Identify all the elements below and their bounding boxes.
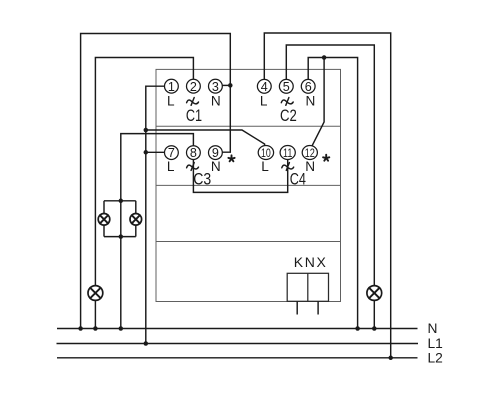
- wire C1 output: terminal 2 via lamp E1 to N bus: [95, 58, 193, 329]
- KNX connector block: [287, 273, 328, 301]
- wire lamp pair top bar: [104, 200, 136, 202]
- junction outer loop on N bus: [78, 326, 83, 331]
- bus line L2: [57, 357, 418, 359]
- switched output symbol terminal 2: [187, 98, 199, 106]
- junction L1 feed / terminal 1+10: [144, 128, 149, 133]
- device box outline: [156, 69, 341, 301]
- terminal 4: [257, 79, 271, 93]
- wire branch to terminal 12: [312, 58, 324, 146]
- svg-text:12: 12: [305, 146, 315, 160]
- junction lamp pair wire on N bus: [119, 326, 124, 331]
- switched output symbol terminal 5: [281, 98, 293, 106]
- svg-text:N: N: [428, 321, 438, 336]
- junction L1 feed / terminal 7: [144, 150, 149, 155]
- svg-text:1: 1: [168, 80, 175, 94]
- device box division line 2: [156, 184, 341, 186]
- svg-text:L1: L1: [428, 336, 443, 351]
- svg-text:N: N: [211, 93, 221, 108]
- wire N-loop left: N bus to terminals 3 and 9: [81, 34, 231, 329]
- wire stub terminal 3 to N-loop: [222, 84, 230, 86]
- wire lamp pair right branch: [135, 201, 137, 237]
- wire C3 output upper: terminal 8 to lamp pair to N bus: [121, 134, 194, 329]
- wire parallel link terminal 8 to terminal 11: [193, 159, 287, 192]
- switched output symbol terminal 8: [187, 163, 199, 171]
- terminal 8: [187, 146, 201, 160]
- junction lamp E1 wire on N bus: [93, 326, 98, 331]
- svg-text:L: L: [261, 159, 269, 174]
- asterisk near terminal 12: [323, 155, 329, 161]
- svg-text:C4: C4: [290, 169, 306, 188]
- bus line L1: [57, 343, 419, 345]
- asterisk near terminal 9: [228, 155, 234, 161]
- terminal 9: [209, 146, 223, 160]
- svg-text:C1: C1: [186, 106, 202, 125]
- svg-text:L2: L2: [428, 350, 443, 365]
- svg-text:L: L: [167, 159, 175, 174]
- svg-text:10: 10: [261, 146, 271, 160]
- svg-text:KNX: KNX: [294, 254, 328, 270]
- junction terminal 6 wire on N bus: [355, 326, 360, 331]
- junction terminal 4 wire on L2 bus: [388, 356, 393, 361]
- svg-text:C2: C2: [280, 106, 297, 125]
- svg-text:L: L: [260, 93, 268, 108]
- svg-text:3: 3: [212, 80, 219, 94]
- svg-text:C3: C3: [193, 169, 211, 188]
- terminal 11: [280, 146, 295, 161]
- wire lamp pair left branch: [103, 201, 105, 237]
- terminal 6: [301, 79, 315, 93]
- junction at terminal 3 N-loop: [228, 83, 233, 88]
- svg-text:8: 8: [190, 146, 197, 160]
- svg-text:N: N: [305, 93, 315, 108]
- KNX pin 2: [317, 301, 319, 314]
- wire C2 output: terminal 5 via lamp E4 to N bus: [286, 45, 374, 329]
- junction L1 feed on L1 bus: [144, 341, 149, 346]
- junction N right branch: [322, 55, 327, 60]
- svg-text:4: 4: [261, 80, 268, 94]
- terminal 5: [279, 79, 293, 93]
- lamp E4: [367, 286, 382, 301]
- svg-text:N: N: [305, 159, 315, 174]
- lamp E3 (pair right): [130, 214, 142, 226]
- junction lamp pair bottom: [119, 234, 124, 239]
- svg-text:N: N: [211, 159, 221, 174]
- bus line N: [57, 328, 418, 330]
- wire branch to terminal 10: [146, 130, 265, 146]
- wire lamp pair bottom bar: [104, 236, 136, 238]
- junction terminal 5 wire on N bus: [372, 326, 377, 331]
- lamp E1: [88, 286, 103, 301]
- terminal 1: [165, 79, 179, 93]
- lamp E2 (pair left): [98, 214, 110, 226]
- svg-text:L: L: [167, 93, 175, 108]
- device box division line 1: [156, 125, 341, 127]
- terminal 3: [209, 79, 223, 93]
- svg-text:6: 6: [305, 80, 312, 94]
- terminal 2: [187, 79, 201, 93]
- switched output symbol terminal 11: [282, 163, 294, 171]
- svg-text:5: 5: [283, 80, 290, 94]
- wire C2 L: terminal 4 to L2 bus: [264, 33, 390, 358]
- device box division line 3: [156, 241, 341, 243]
- terminal 10: [258, 146, 273, 161]
- svg-text:11: 11: [283, 146, 292, 160]
- svg-text:2: 2: [190, 80, 197, 94]
- wire N right: terminal 6 to N bus: [308, 58, 357, 329]
- junction lamp pair top: [119, 199, 124, 204]
- wire branch to terminal 7: [146, 151, 165, 153]
- terminal 12: [302, 146, 317, 161]
- terminal 7: [165, 146, 179, 160]
- KNX pin 1: [296, 301, 298, 314]
- wire L1 feed: L1 bus to terminal 1: [146, 86, 165, 343]
